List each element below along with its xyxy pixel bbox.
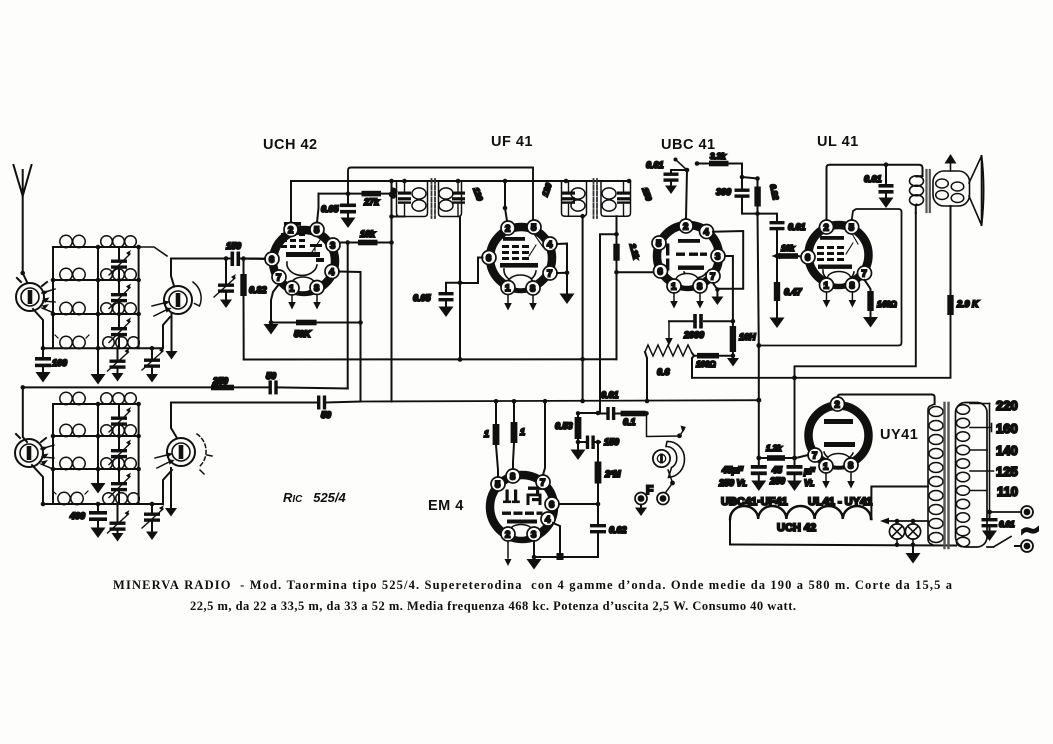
- svg-text:10k: 10k: [360, 229, 376, 239]
- node 0.01 anode tap: [884, 162, 889, 167]
- coil L3 row2: [53, 268, 98, 280]
- resistor 140ohm: [867, 291, 897, 318]
- tube UY41 pins: [808, 397, 858, 473]
- svg-text:0.82: 0.82: [768, 183, 780, 201]
- svg-text:150: 150: [604, 437, 619, 447]
- svg-text:7: 7: [547, 269, 552, 280]
- ground 140ohm: [863, 317, 878, 328]
- coil L6 row3: [98, 303, 139, 315]
- svg-text:3.3k: 3.3k: [710, 152, 726, 161]
- wire pin4 osc anode: [339, 272, 361, 402]
- wire S3 bottom to row4: [32, 465, 53, 504]
- rotary switch S2: [164, 282, 201, 314]
- svg-text:1: 1: [289, 284, 295, 295]
- svg-text:2000: 2000: [683, 330, 704, 340]
- switch mains: [987, 537, 1011, 548]
- svg-text:10k: 10k: [781, 244, 795, 253]
- tube UCH42 pins: [265, 223, 340, 296]
- resistor 0.82 anode load: [754, 179, 780, 214]
- resistor 100ohm: [694, 353, 733, 369]
- svg-text:7: 7: [862, 269, 867, 280]
- svg-text:1: 1: [520, 427, 525, 437]
- coil L15 row4: [53, 491, 98, 505]
- switch contact F: [668, 470, 673, 483]
- svg-text:50: 50: [321, 410, 331, 420]
- trimmer C row4: [108, 348, 130, 382]
- ground centre rail osc: [91, 483, 106, 494]
- wire heater bottom return: [730, 545, 956, 546]
- svg-text:1: 1: [824, 281, 830, 292]
- jack F right: [657, 493, 669, 505]
- node 10k B+ junction: [389, 240, 394, 245]
- svg-text:10H: 10H: [739, 332, 756, 342]
- B+ arrow at transformer: [950, 162, 952, 171]
- wire pin4 to diode return: [713, 231, 743, 289]
- svg-text:1.2k: 1.2k: [766, 444, 782, 453]
- svg-text:8: 8: [530, 284, 535, 295]
- node 2000 10H junction: [731, 319, 736, 324]
- rotary switch S3: [15, 434, 46, 467]
- node 10H bottom: [731, 353, 736, 358]
- wire pot right to heater return: [692, 356, 694, 378]
- IF transformer T1 left winding: [388, 181, 428, 217]
- wire wiper arrow: [668, 321, 670, 338]
- wire UF41 pin2 drop: [505, 181, 507, 221]
- wire pin2 riser to IF rail: [290, 181, 292, 223]
- svg-text:7: 7: [812, 451, 817, 462]
- wire IF2 right bottom to detector: [616, 216, 618, 234]
- wire pin7 diode cathode: [713, 283, 717, 297]
- svg-text:UCH 42: UCH 42: [263, 137, 318, 153]
- svg-text:160: 160: [996, 421, 1018, 436]
- IF transformer T1 core: [432, 179, 436, 218]
- node 0.53 150 junction: [576, 440, 581, 445]
- svg-text:3: 3: [330, 241, 335, 252]
- output transformer primary: [910, 176, 924, 213]
- jack F left: [635, 493, 647, 517]
- resistor 3.3k: [697, 152, 742, 177]
- svg-text:0.01: 0.01: [788, 222, 806, 232]
- wire UF41 pin4 pin7 to ground: [557, 244, 567, 294]
- wire AVC bus: [244, 358, 617, 360]
- capacitor 0.01 coupling: [758, 214, 806, 256]
- svg-text:0.82: 0.82: [249, 285, 267, 295]
- filament arrows UCH42 pins 1 8: [292, 295, 317, 303]
- resistor 10k anode: [358, 229, 378, 245]
- svg-text:0.53: 0.53: [555, 421, 573, 431]
- heater chain coil: [730, 506, 871, 519]
- svg-text:7: 7: [710, 272, 715, 283]
- wire primary bottom P2: [795, 213, 916, 458]
- capacitor 0.01 grid: [646, 160, 687, 194]
- tube UBC41 pins: [652, 219, 725, 293]
- wire EM4 pin4: [553, 523, 560, 555]
- wire IF1 right bottom rail x460: [459, 217, 461, 360]
- speaker field coil: [933, 171, 970, 206]
- ground heater chain: [912, 545, 914, 553]
- wire pin3 to output filter: [725, 256, 733, 321]
- node feedback tap: [345, 240, 350, 245]
- coil L8 row4: [98, 337, 163, 349]
- svg-text:UY41: UY41: [880, 427, 918, 443]
- filament arrow EM4 pin2: [507, 541, 509, 558]
- svg-text:5: 5: [849, 223, 855, 234]
- ground stub below S2: [171, 314, 173, 352]
- coil L12 row2: [98, 425, 139, 437]
- ground stub below S4: [170, 468, 172, 509]
- resistor 1 megohm left: [484, 401, 499, 477]
- node dots coil bank: [41, 245, 141, 351]
- ground UF41 screen: [560, 294, 575, 305]
- svg-text:VL: VL: [804, 478, 814, 488]
- svg-text:300: 300: [716, 187, 731, 197]
- wire cap50 to pin4 riser: [326, 402, 360, 403]
- wire oscillator feedback drop: [347, 243, 349, 389]
- power transformer HT winding: [928, 404, 943, 546]
- svg-text:6: 6: [269, 255, 274, 266]
- tube EM4 pins: [491, 469, 559, 541]
- wire UL41 anode riser: [827, 165, 923, 220]
- svg-text:2.2k: 2.2k: [628, 242, 641, 261]
- trimmer C row3: [109, 314, 131, 348]
- svg-text:0.05: 0.05: [321, 204, 340, 214]
- svg-text:0.6: 0.6: [657, 367, 671, 377]
- svg-text:250: 250: [212, 376, 228, 386]
- trimmer C row1: [109, 247, 131, 280]
- svg-text:6: 6: [486, 253, 491, 264]
- node IF1 top right: [456, 179, 461, 184]
- capacitor 45uF first: [718, 458, 767, 491]
- wire UY41 cathode row: [759, 455, 808, 458]
- svg-text:4: 4: [547, 240, 553, 251]
- svg-text:27k: 27k: [363, 197, 380, 207]
- wire UL41 pin5 screen loop: [759, 209, 902, 346]
- svg-text:3: 3: [531, 530, 536, 541]
- svg-text:1: 1: [484, 429, 489, 439]
- coil L10 row1: [98, 393, 139, 405]
- wire grid drop to pin2: [686, 170, 687, 219]
- ground 10H: [732, 356, 734, 358]
- node 2.2k bottom: [614, 270, 619, 275]
- tube UL41: [809, 225, 869, 285]
- power transformer core: [945, 403, 949, 548]
- wire mains rail: [989, 404, 991, 513]
- tap 140: [970, 449, 987, 451]
- wire H1 grid top row: [348, 168, 533, 221]
- trimmer C osc row4 right: [142, 346, 164, 383]
- node anode RC bottom: [755, 211, 760, 216]
- node H1 H3 junction: [346, 191, 351, 196]
- filament arrows UF41 pins 1 8: [508, 295, 533, 303]
- tap 125: [970, 470, 994, 472]
- pilot lamp 2: [905, 521, 920, 545]
- wire pot right node: [692, 353, 694, 356]
- coil L5 row3: [53, 302, 98, 314]
- tube UF41 pins: [482, 220, 557, 295]
- resistor 0.1: [621, 411, 646, 427]
- trimmer C osc row3: [109, 469, 131, 504]
- svg-text:8: 8: [849, 281, 854, 292]
- trimmer C row2: [109, 280, 131, 314]
- svg-text:220: 220: [996, 398, 1018, 413]
- wire detector chain: [578, 412, 598, 414]
- resistor 27k: [362, 191, 382, 207]
- wire IF supply rail H2: [291, 180, 629, 182]
- wire left rail osc bank: [52, 404, 54, 504]
- svg-text:0.1: 0.1: [623, 417, 636, 427]
- capacitor 0.02: [590, 504, 627, 557]
- wire 2.9k to B+ return P1: [692, 315, 951, 378]
- wire 10k row: [340, 242, 392, 244]
- capacitor 0.01 tone: [864, 165, 894, 208]
- coil L9 row1: [53, 392, 98, 404]
- capacitor 50 grid series: [317, 396, 331, 421]
- wire centre rail: [97, 247, 99, 375]
- coil L1 row1: [53, 235, 98, 247]
- potentiometer 0.6: [645, 345, 692, 377]
- svg-text:2: 2: [683, 222, 688, 233]
- capacitor 50 series: [266, 371, 278, 394]
- node dots osc bank: [41, 402, 155, 507]
- capacitor 0.01 series detector: [598, 390, 621, 420]
- coil L4 row2: [98, 269, 139, 281]
- resistor 2.9k: [947, 295, 980, 315]
- choke 10H: [730, 321, 756, 357]
- svg-text:4: 4: [704, 227, 710, 238]
- filament arrows UY41 pins 1 8: [826, 472, 851, 481]
- rotary switch S4: [167, 434, 206, 467]
- svg-text:0.47: 0.47: [784, 287, 803, 297]
- wire UF41 pin6 to IF1 secondary: [460, 258, 483, 284]
- tap 110: [970, 490, 986, 492]
- svg-text:150: 150: [640, 186, 653, 202]
- wire 0.1 to selector contact: [646, 414, 680, 437]
- svg-text:RIC 525/4: RIC 525/4: [283, 490, 347, 505]
- capacitor 0.05 screen: [321, 194, 356, 228]
- svg-text:8: 8: [314, 283, 319, 294]
- svg-text:1: 1: [505, 283, 511, 294]
- wire row4 to switch S4 bottom: [163, 470, 172, 504]
- svg-text:2.9 K: 2.9 K: [956, 299, 980, 309]
- svg-text:0.02: 0.02: [609, 525, 627, 535]
- switch S1 wiper arrows: [42, 289, 55, 313]
- svg-text:250: 250: [769, 476, 785, 486]
- wire H4 anode node: [742, 177, 758, 179]
- tube UL41 pins: [801, 220, 872, 292]
- wire 50k row: [271, 322, 361, 324]
- ground EM4: [527, 559, 542, 570]
- svg-text:22,5 m, da 22 a 33,5 m, da 33: 22,5 m, da 22 a 33,5 m, da 33 a 52 m. Me…: [190, 599, 796, 613]
- wire B+ AVC rail: [361, 400, 759, 401]
- wire B+ riser x391: [391, 181, 393, 402]
- svg-text:2²M: 2²M: [604, 469, 621, 479]
- capacitor 300: [716, 177, 758, 214]
- trimmer C osc row2: [109, 436, 131, 469]
- svg-text:2: 2: [288, 225, 293, 236]
- switch S3 wiper arrows: [41, 445, 54, 469]
- rotary switch S1: [16, 278, 47, 311]
- svg-text:8: 8: [697, 282, 702, 293]
- svg-text:100Ω: 100Ω: [696, 360, 716, 369]
- svg-text:0.01: 0.01: [646, 160, 664, 170]
- IF transformer T2 right winding: [601, 181, 653, 216]
- node IF2 top right: [627, 179, 632, 184]
- switch S4 wiper arrows: [155, 455, 212, 474]
- capacitor 150 series: [578, 436, 619, 450]
- svg-text:250 VL: 250 VL: [718, 478, 747, 488]
- wire row1 to S2: [139, 247, 167, 256]
- jack mains top: [1021, 506, 1033, 518]
- svg-text:45: 45: [771, 465, 783, 475]
- svg-text:0.05: 0.05: [413, 293, 432, 303]
- coil L16 row4: [98, 493, 163, 505]
- trimmer C osc row4 col2: [108, 504, 130, 542]
- coil L13 row3: [53, 457, 98, 469]
- wire row4 to switch S2 bottom: [163, 317, 170, 348]
- tuning knob F: [653, 441, 685, 477]
- node B plus T: [792, 375, 797, 380]
- tap 220: [970, 403, 990, 405]
- power transformer mains winding: [956, 403, 988, 548]
- trimmer C antenna coupling: [214, 256, 236, 308]
- wire lamps top feed: [888, 520, 928, 522]
- IF transformer T2 core: [594, 179, 598, 218]
- wire right rail osc bank: [138, 404, 140, 504]
- svg-text:120: 120: [471, 186, 484, 202]
- ground centre rail: [91, 374, 106, 385]
- svg-text:5: 5: [314, 225, 320, 236]
- IF transformer T2 left winding: [541, 181, 587, 216]
- svg-text:7: 7: [540, 478, 545, 489]
- switch S2 wiper arrows: [152, 303, 166, 316]
- svg-text:7: 7: [276, 273, 281, 284]
- wire IF2 left bottom drop: [582, 216, 584, 401]
- wire centre rail osc bank: [97, 404, 99, 484]
- wire pin6 to grid components: [244, 258, 266, 260]
- resistor 0.53: [555, 413, 581, 450]
- tap 160: [970, 424, 992, 432]
- svg-text:140: 140: [996, 443, 1018, 458]
- wire 2.2k drop to AVC bus: [616, 272, 618, 359]
- capacitor 0.05 UF41 cathode: [413, 283, 460, 317]
- tube UY41: [809, 406, 869, 467]
- resistor 1.2k: [766, 444, 795, 461]
- node 0.05 tap: [458, 281, 463, 286]
- wire antenna to switch S1: [23, 273, 27, 282]
- coil L14 row3: [98, 458, 139, 470]
- svg-text:1: 1: [823, 462, 829, 473]
- wire S1 bottom to row4: [33, 309, 43, 348]
- coil L7 row4: [43, 335, 98, 349]
- svg-text:μF: μF: [803, 466, 815, 476]
- svg-text:UL 41: UL 41: [817, 134, 859, 150]
- svg-text:0.01: 0.01: [601, 390, 619, 400]
- wire speaker to 2.9k: [950, 206, 952, 295]
- resistor 0.82 grid leak: [240, 256, 266, 359]
- svg-text:2: 2: [824, 223, 829, 234]
- coil L2 row1: [98, 236, 139, 248]
- switch contact AM grid: [674, 158, 700, 173]
- node IF1 top left: [402, 179, 407, 184]
- trimmer C osc row4 right: [142, 504, 164, 540]
- svg-text:110: 110: [997, 484, 1018, 499]
- jack mains bottom: [1015, 540, 1033, 552]
- svg-text:125: 125: [996, 464, 1018, 479]
- wire 2.2k to UBC41 pin6: [617, 271, 654, 273]
- svg-text:6: 6: [549, 500, 554, 511]
- wire pin5 riser to anode row: [317, 194, 319, 223]
- wire S4 top to osc grid line: [171, 403, 177, 439]
- ground 0.53: [571, 450, 586, 461]
- svg-text:8: 8: [848, 461, 853, 472]
- svg-text:50: 50: [266, 371, 276, 381]
- wire osc top bus: [23, 386, 211, 388]
- wire filtered B+ drop V759: [758, 214, 759, 458]
- tube UBC41: [657, 225, 719, 287]
- wire to mains jack: [990, 511, 1022, 513]
- capacitor 0.01 mains: [982, 512, 1016, 541]
- svg-text:2: 2: [505, 224, 510, 235]
- svg-text:8: 8: [510, 472, 515, 483]
- filament arrows UL41 pins 1 8: [827, 292, 853, 300]
- resistor 1 megohm right: [511, 401, 525, 469]
- wire osc grid line: [171, 402, 317, 404]
- svg-text:5: 5: [656, 239, 662, 250]
- ground pin7: [711, 297, 723, 306]
- svg-text:EM 4: EM 4: [428, 498, 464, 514]
- wire EM4 cathode row: [534, 556, 598, 558]
- wire EM4 pin3 to ground: [533, 541, 535, 557]
- wire right rail: [138, 247, 140, 348]
- svg-text:150: 150: [226, 241, 241, 251]
- svg-text:UCH 42: UCH 42: [777, 522, 816, 534]
- svg-text:1: 1: [671, 282, 677, 293]
- antenna: [14, 165, 32, 273]
- node antenna junction: [20, 271, 25, 276]
- svg-text:0.01: 0.01: [864, 174, 882, 184]
- node grid stopper junction: [775, 254, 780, 259]
- coil L11 row2: [53, 424, 98, 436]
- capacitor 45uF second: [769, 458, 815, 491]
- svg-text:400: 400: [69, 511, 85, 521]
- resistor 10k grid UL41: [772, 244, 802, 259]
- svg-text:2: 2: [505, 530, 510, 541]
- wire S2 top to mixer line: [171, 259, 174, 287]
- ground 50k left: [264, 324, 279, 335]
- wire cap 50 to feedback riser: [278, 387, 348, 388]
- wire IF1 left bottom to B+ riser: [392, 216, 405, 218]
- wire mixer grid line: [171, 258, 265, 260]
- tube UF41: [490, 227, 552, 289]
- capacitor 150 series: [226, 241, 241, 266]
- wire osc left drop: [23, 387, 27, 442]
- pilot lamp 1: [889, 521, 904, 545]
- resistor 2M: [595, 442, 621, 504]
- svg-text:120: 120: [541, 182, 554, 198]
- resistor 0.47: [774, 256, 803, 318]
- wire EM4 pin6 row: [559, 503, 598, 505]
- svg-text:UBC 41: UBC 41: [661, 137, 716, 153]
- svg-text:90: 90: [388, 187, 400, 199]
- resistor 250: [211, 376, 234, 390]
- capacitor 400 padder: [69, 504, 107, 538]
- tube UCH42: [273, 222, 335, 292]
- speaker cone: [969, 156, 982, 225]
- IF transformer T1 right winding: [439, 181, 485, 217]
- wire heater chain left drop: [729, 519, 731, 545]
- wire left rail of coil bank: [52, 247, 54, 348]
- wire pin7 to cathode ground: [271, 284, 279, 323]
